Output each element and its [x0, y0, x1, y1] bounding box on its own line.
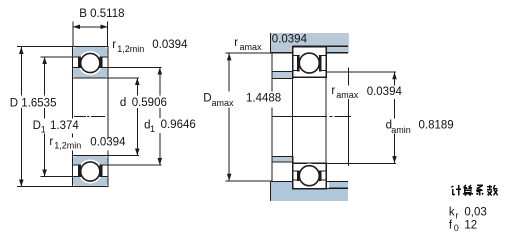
- svg-text:B 0.5118: B 0.5118: [79, 8, 124, 20]
- svg-text:0.8189: 0.8189: [419, 120, 454, 132]
- svg-text:1.4488: 1.4488: [246, 93, 281, 105]
- svg-text:1,2min: 1,2min: [54, 141, 81, 151]
- svg-text:0.0394: 0.0394: [152, 39, 188, 51]
- svg-text:D: D: [203, 93, 211, 105]
- svg-text:r: r: [49, 136, 53, 148]
- svg-text:amin: amin: [391, 125, 411, 135]
- svg-text:0.0394: 0.0394: [272, 33, 308, 45]
- svg-text:D: D: [33, 120, 41, 132]
- svg-text:amax: amax: [336, 90, 359, 100]
- svg-text:0.0394: 0.0394: [367, 86, 403, 98]
- svg-text:r: r: [234, 37, 238, 49]
- svg-text:0.9646: 0.9646: [161, 119, 196, 131]
- svg-text:amax: amax: [240, 42, 263, 52]
- svg-text:1.374: 1.374: [50, 120, 79, 132]
- svg-text:r: r: [112, 39, 116, 51]
- svg-text:r: r: [455, 210, 458, 220]
- svg-text:0,03: 0,03: [464, 206, 486, 218]
- svg-text:0.0394: 0.0394: [90, 137, 126, 149]
- svg-text:D 1.6535: D 1.6535: [10, 97, 57, 109]
- svg-text:k: k: [449, 206, 455, 218]
- svg-text:1,2min: 1,2min: [117, 44, 144, 54]
- svg-text:12: 12: [464, 219, 477, 231]
- svg-text:0: 0: [454, 223, 459, 233]
- svg-text:0.5906: 0.5906: [132, 97, 167, 109]
- svg-text:d: d: [120, 97, 126, 109]
- svg-text:amax: amax: [212, 98, 235, 108]
- svg-text:1: 1: [150, 124, 155, 134]
- svg-text:1: 1: [41, 124, 46, 134]
- svg-text:r: r: [331, 85, 335, 97]
